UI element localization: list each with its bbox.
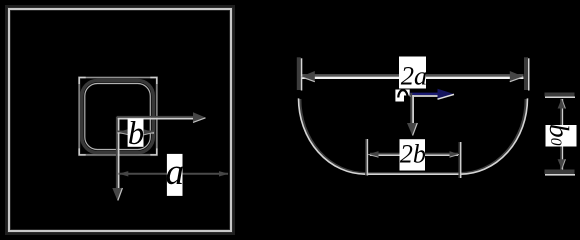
svg-text:a: a (166, 152, 185, 193)
blue arrowhead (438, 89, 455, 100)
tub outline light line (299, 98, 528, 174)
b0 top tick (545, 93, 575, 97)
crosshair vertical line (116, 117, 118, 189)
2a label box (399, 57, 426, 89)
crosshair right arrowhead (193, 112, 206, 122)
sharp square corner ears (79, 78, 157, 155)
2b dimension line (370, 153, 458, 155)
b0 bottom tick (545, 170, 575, 175)
2b left arrowhead (368, 151, 378, 157)
2a right arrowhead (510, 71, 524, 82)
crosshair horizontal line (117, 116, 196, 118)
tub outline dark underlay (300, 99, 526, 174)
right figure down line (410, 93, 412, 124)
a left arrowhead (119, 171, 129, 176)
b0 up arrowhead (558, 99, 566, 109)
b right arrowhead (144, 129, 154, 135)
rounded square inner highlight (85, 84, 151, 150)
a label box (167, 154, 183, 196)
rounded square tube (82, 81, 154, 153)
crosshair down arrowhead (112, 188, 122, 201)
outer square frame (8, 8, 233, 233)
2a left tick (297, 57, 301, 90)
svg-text:2b: 2b (400, 140, 426, 169)
blue arrow line (410, 93, 440, 95)
right figure down arrowhead (407, 123, 418, 136)
2b left tick (365, 139, 367, 176)
b label box (128, 119, 144, 147)
partial label white patch (395, 90, 409, 102)
2a right tick (524, 57, 528, 90)
b dimension line (118, 130, 155, 132)
2b label box (400, 139, 426, 170)
2b right arrowhead (450, 151, 459, 157)
2a left arrowhead (301, 71, 315, 82)
svg-text:b: b (128, 116, 144, 152)
inner sharp square (79, 78, 157, 155)
a right arrowhead (219, 171, 229, 176)
b0 down arrowhead (558, 159, 566, 169)
b0 dimension line (560, 99, 562, 171)
2b right tick (458, 142, 460, 178)
partial glyph dome (398, 90, 407, 97)
2a dimension line (301, 74, 524, 76)
svg-text:2a: 2a (401, 60, 428, 90)
b left arrowhead (118, 129, 129, 135)
b0 label box (546, 125, 577, 147)
a dimension line (119, 173, 229, 175)
